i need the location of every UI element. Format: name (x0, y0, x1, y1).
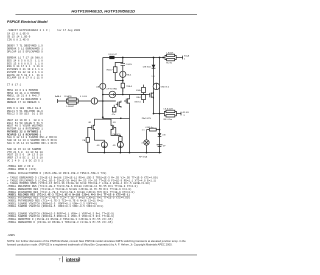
svg-text:RF GSA: RF GSA (139, 156, 148, 159)
svg-text:PA: PA (82, 139, 85, 142)
netlist switch group (7, 148, 44, 162)
emitter label (139, 156, 148, 159)
svg-text:4 ΩΩ 4a: 4 ΩΩ 4a (145, 127, 154, 129)
title (7, 20, 48, 24)
footer divider bar (62, 256, 64, 262)
subckt line (7, 29, 82, 32)
svg-text:RA 47: RA 47 (107, 69, 114, 72)
svg-text:.MODEL S2AMOD VSWITCH (RON=1E-: .MODEL S2AMOD VSWITCH (RON=1E-5 ROFF=0.1… (7, 211, 116, 224)
svg-text:4Ω 4Ω: 4Ω 4Ω (182, 112, 189, 114)
wire loop down (122, 81, 124, 84)
netlist short line (7, 167, 38, 171)
wire mos1 source down (129, 105, 131, 153)
svg-text:4Ω: 4Ω (88, 122, 91, 124)
svg-text:90uA: 90uA (184, 54, 190, 57)
svg-text:4 B: 4 B (162, 135, 166, 137)
svg-text:MOS1 16 6 8 8 MOSMOD MOS2 16 2: MOS1 16 6 8 8 MOSMOD MOS2 16 21 8 8 MOSM… (7, 89, 41, 98)
resistor stack upper (136, 85, 145, 93)
wire split bar (95, 119, 112, 123)
svg-text:PSPICE Electrical Model: PSPICE Electrical Model (7, 20, 48, 24)
netlist rbias (7, 98, 43, 104)
intersil logo (66, 257, 80, 262)
footer rule (16, 254, 198, 256)
note paragraph (7, 239, 186, 246)
svg-text:4 G 4G: 4 G 4G (80, 96, 87, 98)
source X circle (141, 130, 149, 153)
svg-text:4Ω: 4Ω (97, 145, 100, 147)
gate terminal label (55, 95, 62, 103)
resistor bottom right branch (111, 133, 122, 141)
wire loop left branch (115, 63, 123, 81)
resistor 47a (112, 105, 116, 116)
netlist controlled sources (7, 57, 44, 80)
resistor DB on top rail (109, 54, 118, 59)
wire cluster bottom (103, 118, 130, 120)
svg-text:ESA: ESA (136, 89, 141, 92)
resistor RG pair (64, 95, 78, 108)
diode DBODY (143, 65, 156, 69)
svg-text:S2B 14 15 14 13 S2BMOD VTO 21: S2B 14 15 14 13 S2BMOD VTO 21 6 0 14 13 … (7, 148, 44, 162)
header rule (16, 14, 198, 16)
wire top rail (103, 57, 163, 59)
svg-text:1: 1 (184, 58, 186, 60)
svg-text:LE 9.5nH: LE 9.5nH (164, 109, 174, 111)
netlist v sources group (7, 119, 58, 145)
svg-text:HGTP10N40E1D, HGTP10N50E1D: HGTP10N40E1D, HGTP10N50E1D (71, 9, 135, 14)
svg-text:4Ω: 4Ω (113, 122, 116, 124)
netlist diodes (7, 45, 44, 54)
svg-text:L 90nH: L 90nH (166, 52, 173, 54)
node junction loop bottom (122, 80, 124, 82)
svg-text:1 1: 1 1 (142, 130, 146, 132)
svg-text:EA 4: EA 4 (127, 73, 132, 76)
source gate circle (80, 96, 98, 104)
svg-text:.MODEL DCOLLECTORMOD D (IS=6.0: .MODEL DCOLLECTORMOD D (IS=6.05E-13 RS=9… (7, 171, 108, 175)
svg-text:TBA 5: TBA 5 (126, 85, 133, 88)
wire emitter row (153, 113, 165, 115)
resistor RA left branch (107, 67, 117, 73)
svg-text:.MODEL DMOD D (I=3): .MODEL DMOD D (I=3) (7, 167, 38, 171)
inductor LE parallel resistor RE (164, 109, 189, 121)
svg-text:PA4 GPS: PA4 GPS (142, 117, 152, 120)
header part numbers (71, 9, 135, 14)
label gvtemp (142, 117, 152, 120)
svg-text:7: 7 (59, 258, 61, 262)
mosfet MOS1 (124, 98, 142, 105)
wire gate row (57, 100, 115, 102)
mosfet bottom left (88, 122, 94, 133)
source on left rail (96, 83, 106, 89)
source GIGTR circle (106, 88, 117, 98)
wire gvtemp row (142, 129, 161, 132)
svg-text:DIE 904: DIE 904 (143, 67, 152, 69)
wire loop vertical (122, 58, 124, 93)
model table lower (7, 211, 116, 224)
ends statement (7, 234, 16, 237)
wire bottom rail (88, 152, 162, 154)
inductor L parallel resistor RL (162, 52, 189, 64)
source GMOS circle (153, 83, 170, 90)
svg-text:3: 3 (183, 115, 185, 117)
svg-text:GMOS 4: GMOS 4 (161, 86, 170, 88)
netlist IT line (7, 84, 23, 87)
svg-text:PA GPS: PA GPS (113, 133, 121, 136)
source bottom left circle (95, 133, 108, 153)
svg-text:1-RGAT: 1-RGAT (66, 105, 75, 108)
svg-text:EBREAK 11 7 17 18 988.6 EDS 14: EBREAK 11 7 17 18 988.6 EDS 14 8 5 8 0.5… (7, 57, 44, 80)
svg-text:CA 12 8 1.6E-9 CB 15 14 1.6E-9: CA 12 8 1.6E-9 CB 15 14 1.6E-9 CIN 6 8 2… (7, 33, 32, 42)
svg-text:4: 4 (141, 142, 143, 144)
wire gate stub left (88, 127, 90, 137)
wire right rail 1 (151, 57, 155, 114)
netlist capacitors (7, 33, 32, 42)
source EA circle (120, 71, 132, 77)
svg-text:RB4: RB4 (136, 97, 141, 99)
svg-text:NOTE: For further discussion o: NOTE: For further discussion of the PSPI… (7, 239, 186, 246)
wire right rail 2 (159, 57, 161, 153)
svg-text:4F: 4F (163, 146, 166, 148)
wire left rail (102, 58, 104, 120)
svg-text:RE 4.5m: RE 4.5m (164, 119, 173, 121)
svg-text:1 4: 1 4 (151, 76, 155, 78)
mosfet MOS2 (116, 101, 121, 108)
svg-text:.ENDS: .ENDS (7, 234, 16, 237)
resistor far left branch (82, 138, 89, 153)
resistor gvtemp (145, 127, 156, 131)
node split junction (102, 116, 104, 118)
resistor below loop (121, 83, 133, 95)
svg-text:DB 4147: DB 4147 (109, 54, 118, 56)
diode gvtemp (158, 133, 166, 136)
footer page number (59, 258, 61, 262)
svg-text:RL 90: RL 90 (166, 63, 173, 65)
mosfet MOS3 (148, 92, 153, 99)
svg-text:+ TABLE DBREAKMOD D (IS=1E-13: + TABLE DBREAKMOD D (IS=1E-13 N=188 CJO=… (7, 176, 160, 209)
wire mos1 drain (129, 95, 131, 98)
svg-text:RBIAS 17 18 RBIASMOD 1 RBREAK: RBIAS 17 18 RBIASMOD 1 RBREAK 17 18 RBRE… (7, 98, 43, 104)
svg-text:VBAT 22 19 DC 1 18 8 1 ESLC 5: VBAT 22 19 DC 1 18 8 1 ESLC 51 50 VALUE … (7, 119, 58, 145)
wire gigtr row (102, 94, 148, 96)
svg-text:RIN 6 8 1E9 RSLC 1E-6 RSLC1 5: RIN 6 8 1E9 RSLC 1E-6 RSLC1 5 51 RSLCMOD… (7, 107, 44, 116)
model long line (7, 171, 108, 175)
svg-text:AAA 4: AAA 4 (55, 95, 62, 98)
resistor stack lower (136, 93, 145, 103)
svg-text:4Ω: 4Ω (113, 145, 116, 147)
wire gate stub right (115, 127, 117, 135)
svg-text:IT 8 17 1: IT 8 17 1 (7, 84, 23, 87)
source bottom right circle (113, 141, 124, 152)
mosfet bottom right (111, 122, 116, 133)
netlist mosfets (7, 89, 41, 98)
capacitor gvtemp (157, 145, 167, 148)
svg-text:MOS1: MOS1 (135, 102, 142, 104)
svg-text:RGATE: RGATE (64, 95, 72, 98)
netlist esg line (7, 165, 35, 168)
node junction top (122, 57, 124, 59)
svg-text:intersil: intersil (66, 257, 80, 262)
svg-text:DBODY 7 71 DBODYMOD 1.9 DBREAK: DBODY 7 71 DBODYMOD 1.9 DBREAK 5 11 DBRE… (7, 45, 44, 54)
svg-text:LIA: LIA (96, 85, 100, 88)
svg-text:4 FTGTRA: 4 FTGTRA (106, 88, 117, 91)
svg-text:47a: 47a (112, 114, 116, 116)
model table (7, 176, 160, 209)
netlist rin group (7, 107, 44, 116)
capacitor CA (121, 64, 133, 66)
svg-text:CGFS: CGFS (126, 64, 133, 66)
